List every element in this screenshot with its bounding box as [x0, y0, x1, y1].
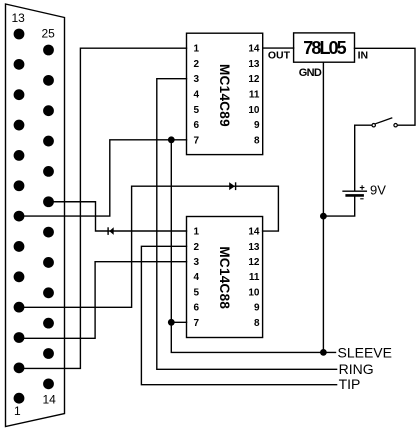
svg-text:14: 14 — [43, 392, 57, 406]
svg-text:9: 9 — [254, 303, 260, 314]
wire J1 right pin through D1 to U2 pin1 — [49, 202, 187, 231]
svg-text:1: 1 — [14, 404, 21, 418]
wire U2 pin7 stub — [171, 321, 186, 323]
battery BT1 top plate — [343, 190, 366, 192]
diode D2 — [229, 182, 236, 190]
svg-text:1: 1 — [194, 227, 200, 238]
svg-text:5: 5 — [194, 105, 200, 116]
svg-text:OUT: OUT — [268, 49, 291, 61]
U2 left pin numbers — [194, 227, 200, 329]
wire IN from 78L05 to switch — [355, 48, 416, 125]
svg-text:3: 3 — [194, 257, 200, 268]
U2 right pin numbers — [248, 227, 260, 329]
switch S1 terminal circles — [372, 124, 375, 127]
connector J1 left column pins — [14, 29, 25, 404]
svg-text:9: 9 — [254, 120, 260, 131]
svg-text:RING: RING — [339, 361, 374, 377]
wire U1 pin1 to J1 left pin — [19, 48, 187, 368]
svg-text:TIP: TIP — [339, 376, 361, 392]
svg-text:13: 13 — [248, 242, 260, 253]
svg-text:7: 7 — [194, 135, 200, 146]
svg-text:4: 4 — [194, 272, 200, 283]
svg-text:6: 6 — [194, 120, 200, 131]
wire U2 pin2 to TIP — [141, 246, 336, 384]
switch S1 arm — [376, 118, 392, 124]
svg-text:1: 1 — [194, 44, 200, 55]
battery minus sign — [360, 198, 363, 200]
svg-text:SLEEVE: SLEEVE — [338, 344, 392, 360]
svg-text:11: 11 — [249, 90, 260, 101]
svg-text:12: 12 — [248, 74, 260, 85]
svg-text:13: 13 — [12, 11, 26, 25]
IC U2 MC14C88 box — [187, 217, 263, 338]
svg-text:MC14C88: MC14C88 — [217, 246, 232, 309]
wire sleeve spine pin7 to SLEEVE — [171, 140, 335, 353]
svg-text:11: 11 — [249, 272, 260, 283]
wire J1 left pin through D2 to U2 pin14 — [19, 186, 278, 307]
svg-text:2: 2 — [194, 59, 200, 70]
svg-text:14: 14 — [248, 44, 260, 55]
battery plus sign — [360, 185, 365, 190]
svg-text:12: 12 — [248, 257, 260, 268]
svg-text:2: 2 — [194, 242, 200, 253]
svg-text:8: 8 — [254, 318, 260, 329]
svg-text:78L05: 78L05 — [303, 38, 346, 58]
svg-text:3: 3 — [194, 74, 200, 85]
wire U1 pin14 to OUT — [263, 47, 294, 49]
svg-text:6: 6 — [194, 303, 200, 314]
U1 right pin numbers — [248, 44, 260, 147]
U1 left pin numbers — [194, 44, 200, 147]
connector J1 right column pins — [43, 45, 54, 390]
svg-text:MC14C89: MC14C89 — [217, 64, 232, 127]
wire U1 pin7 to J1 left pin — [19, 140, 187, 216]
wire U1 pin3 to RING — [157, 79, 337, 370]
junction node U1 pin7 — [168, 136, 175, 143]
wire U2 pin3 to J1 left pin — [19, 262, 187, 339]
svg-text:GND: GND — [299, 67, 322, 79]
connector J1 DB25 outline — [6, 4, 65, 427]
svg-text:25: 25 — [42, 27, 56, 41]
svg-text:10: 10 — [248, 287, 260, 298]
regulator U3 78L05 box — [294, 33, 355, 62]
wire switch left to battery plus — [355, 125, 372, 190]
junction node U2 pin7 — [168, 319, 175, 326]
svg-text:14: 14 — [248, 227, 260, 238]
svg-text:4: 4 — [194, 90, 200, 101]
wire GND spine — [322, 62, 324, 352]
svg-text:5: 5 — [194, 287, 200, 298]
svg-text:10: 10 — [248, 105, 260, 116]
svg-text:13: 13 — [248, 59, 260, 70]
junction node SLEEVE GND — [320, 349, 327, 356]
diode D1 — [107, 227, 113, 235]
svg-text:IN: IN — [358, 49, 369, 61]
junction node battery GND — [320, 213, 327, 220]
svg-text:9V: 9V — [370, 183, 386, 198]
battery BT1 bottom plate — [347, 194, 363, 197]
svg-text:8: 8 — [254, 135, 260, 146]
svg-text:7: 7 — [194, 318, 200, 329]
wire battery minus to GND node — [323, 196, 354, 216]
IC U1 MC14C89 box — [187, 33, 263, 154]
